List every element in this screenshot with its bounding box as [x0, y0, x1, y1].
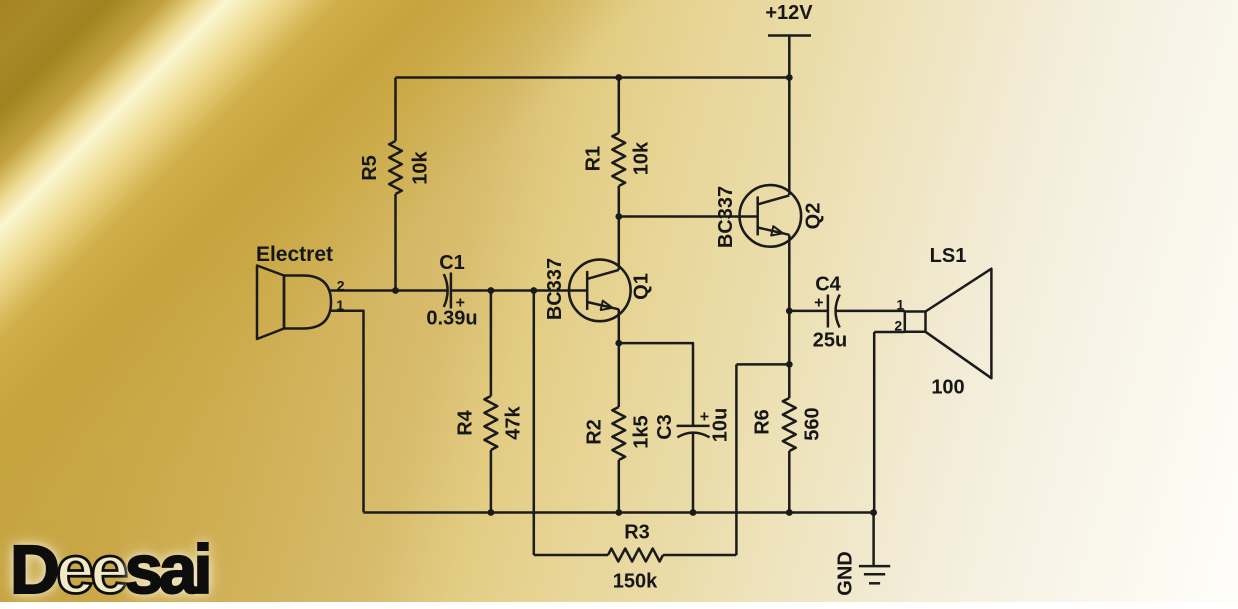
svg-text:1: 1 [896, 297, 904, 313]
svg-text:150k: 150k [613, 570, 658, 592]
svg-text:R4: R4 [455, 409, 477, 435]
svg-text:C4: C4 [815, 274, 841, 296]
svg-text:R3: R3 [624, 522, 650, 544]
svg-text:Electret: Electret [256, 243, 333, 266]
svg-text:R1: R1 [583, 146, 605, 172]
svg-text:BC337: BC337 [544, 258, 566, 320]
svg-text:BC337: BC337 [715, 186, 737, 248]
svg-text:1: 1 [336, 297, 344, 313]
svg-text:100: 100 [931, 377, 964, 399]
svg-text:C3: C3 [654, 414, 676, 440]
svg-text:LS1: LS1 [930, 245, 967, 267]
svg-text:+: + [814, 295, 823, 312]
svg-text:R5: R5 [359, 155, 381, 181]
svg-text:1k5: 1k5 [631, 415, 653, 448]
svg-text:R2: R2 [584, 419, 606, 445]
svg-text:10k: 10k [410, 150, 432, 184]
svg-text:+12V: +12V [765, 2, 813, 24]
svg-text:10u: 10u [710, 408, 732, 442]
svg-text:R6: R6 [752, 409, 774, 435]
svg-text:Q1: Q1 [631, 273, 653, 300]
svg-text:GND: GND [835, 551, 857, 595]
svg-text:Q2: Q2 [803, 203, 825, 230]
svg-text:10k: 10k [630, 141, 652, 175]
svg-text:2: 2 [337, 277, 345, 293]
svg-text:25u: 25u [813, 330, 847, 352]
svg-text:2: 2 [894, 318, 902, 334]
svg-text:47k: 47k [503, 405, 525, 439]
svg-text:0.39u: 0.39u [426, 308, 477, 330]
svg-text:C1: C1 [439, 252, 465, 274]
svg-text:560: 560 [802, 407, 824, 440]
